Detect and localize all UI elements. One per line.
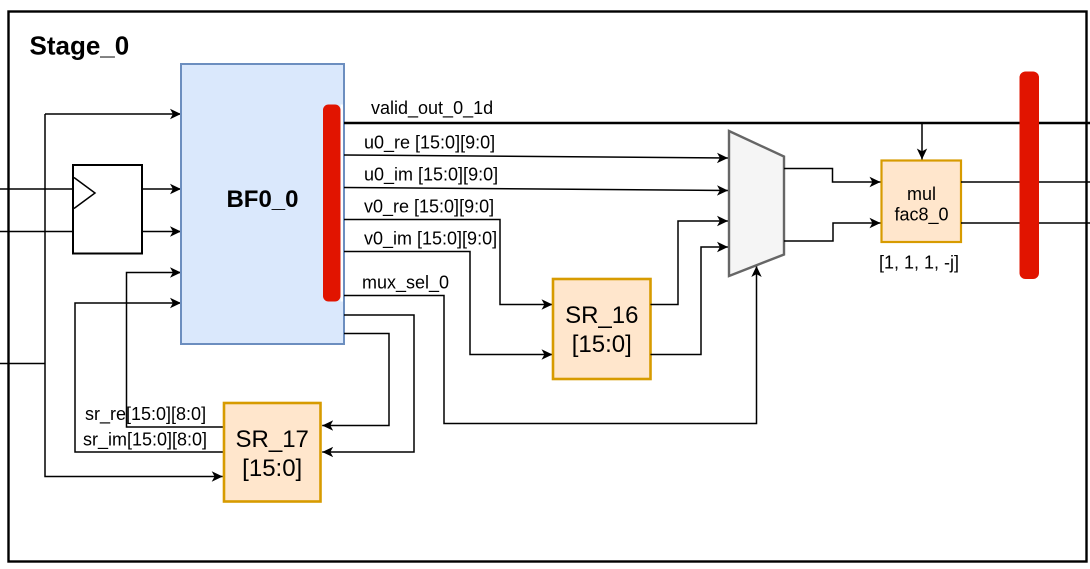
- wire valid branch down into mul: [921, 123, 923, 160]
- svg-text:SR_17: SR_17: [236, 426, 309, 453]
- block BF0_0: [181, 64, 344, 344]
- wire left input 2 (into register): [0, 231, 73, 233]
- svg-text:valid_out_0_1d: valid_out_0_1d: [371, 98, 493, 119]
- wire valid_out_0_1d: [344, 122, 1090, 124]
- wire u0_re into mux: [344, 155, 728, 158]
- wire BF out to SR_17 right input 2: [322, 315, 414, 452]
- wire left input 3 (joins vertical trunk): [0, 363, 45, 365]
- wire top trunk into BF0_0 input 1: [45, 113, 181, 115]
- wire mul output 2 to right edge: [961, 222, 1090, 224]
- svg-text:v0_re [15:0][9:0]: v0_re [15:0][9:0]: [364, 197, 494, 218]
- register buffer box: [73, 165, 142, 254]
- svg-text:[15:0]: [15:0]: [572, 331, 632, 358]
- wire mul output 1 to right edge: [961, 181, 1090, 183]
- svg-text:u0_im [15:0][9:0]: u0_im [15:0][9:0]: [364, 165, 498, 186]
- white gap right of red bar: [341, 105, 343, 302]
- register clock triangle: [74, 178, 95, 209]
- svg-text:[1, 1, 1, -j]: [1, 1, 1, -j]: [879, 253, 959, 273]
- wire v0_re into SR_16: [344, 220, 553, 305]
- wire SR_16 output 2 up into mux: [651, 247, 729, 355]
- wire BF out to SR_17 right input 1: [322, 334, 389, 426]
- svg-text:Stage_0: Stage_0: [30, 30, 130, 60]
- block mul fac8_0: [882, 161, 962, 243]
- svg-text:sr_re[15:0][8:0]: sr_re[15:0][8:0]: [85, 404, 206, 425]
- wire left input 1 (into register): [0, 188, 73, 190]
- svg-text:[15:0]: [15:0]: [242, 455, 302, 482]
- wire register output 2 into BF0_0: [142, 231, 181, 233]
- wire sr_re feedback from SR_17 into BF0_0: [127, 273, 225, 428]
- wire SR_16 output 1 up into mux: [651, 221, 729, 305]
- wire sr_im feedback from SR_17 into BF0_0: [75, 303, 224, 452]
- wire u0_im into mux: [344, 188, 728, 191]
- svg-text:v0_im [15:0][9:0]: v0_im [15:0][9:0]: [364, 229, 497, 250]
- wire mux_sel_0 into mux select: [344, 266, 757, 424]
- svg-text:u0_re [15:0][9:0]: u0_re [15:0][9:0]: [364, 133, 495, 154]
- svg-text:mul: mul: [907, 184, 936, 204]
- svg-text:fac8_0: fac8_0: [894, 205, 948, 226]
- svg-text:sr_im[15:0][8:0]: sr_im[15:0][8:0]: [83, 430, 207, 451]
- block SR_16: [553, 279, 651, 379]
- wire v0_im into SR_16: [344, 252, 553, 355]
- mux trapezoid: [729, 131, 784, 276]
- wire mux output 1 into mul: [784, 169, 881, 183]
- red bus bar left: [323, 105, 341, 302]
- block SR_17: [224, 403, 321, 502]
- svg-text:mux_sel_0: mux_sel_0: [362, 273, 449, 294]
- svg-text:SR_16: SR_16: [565, 302, 638, 329]
- red bus bar right: [1020, 72, 1040, 280]
- wire trunk vertical down to SR_17 input: [45, 114, 223, 477]
- svg-text:BF0_0: BF0_0: [226, 186, 298, 213]
- wire mux output 2 into mul: [784, 223, 881, 241]
- wire register output 1 into BF0_0: [142, 188, 181, 190]
